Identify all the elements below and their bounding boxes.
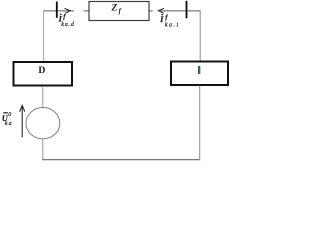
svg-text:D: D: [38, 65, 45, 76]
wire bottom horizontal: [42, 159, 200, 161]
block D: [14, 62, 73, 86]
svg-text:0: 0: [8, 112, 11, 118]
wire source circle to bottom: [42, 139, 44, 161]
fault tick right: [186, 1, 188, 19]
wire D box to source circle: [42, 86, 44, 108]
emf arrow up: [21, 106, 23, 138]
current label I_ka.d left: [58, 14, 75, 28]
block I: [171, 62, 228, 86]
svg-text:ka: ka: [5, 121, 13, 127]
svg-text:ka.i: ka.i: [165, 22, 180, 28]
wire left vertical down to D box: [43, 11, 45, 62]
arrowhead current direction left (into Zf): [158, 8, 164, 13]
wire stub right of Zf box: [150, 10, 153, 12]
svg-text:I: I: [159, 15, 164, 24]
impedance box Zf: [89, 2, 149, 21]
wire I box down to bottom: [199, 86, 201, 161]
svg-text:ka.d: ka.d: [61, 22, 75, 28]
wire right vertical down to I box: [199, 11, 201, 61]
fault tick left: [56, 2, 58, 18]
voltage source circle: [26, 108, 60, 139]
label U0_ka: [2, 112, 13, 127]
wire top-left horizontal from left corner to arrow: [43, 10, 74, 12]
arrowhead current direction right (into Zf): [65, 8, 71, 13]
current label I_ka.i right: [159, 14, 180, 28]
label I (teal): [198, 66, 200, 74]
wire dash before Zf box left: [84, 10, 89, 12]
svg-text:Z: Z: [111, 3, 118, 13]
wire top-right horizontal from arrow to right corner: [158, 10, 200, 12]
